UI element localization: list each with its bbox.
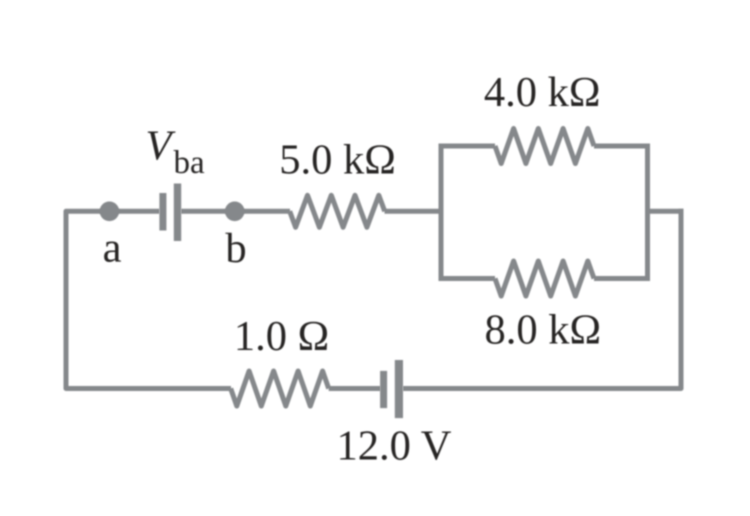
- wire: parallel box left vertical: [439, 144, 444, 282]
- wire: 8.0k resistor to box bottom-right corner: [594, 276, 650, 281]
- wire: outer right vertical down and bottom to 12.0V battery positive plate: [403, 209, 681, 389]
- wire: parallel box right vertical: [645, 144, 650, 282]
- svg-text:8.0 kΩ: 8.0 kΩ: [485, 307, 602, 354]
- wire: 4.0k resistor to box top-right corner: [594, 144, 650, 149]
- wire: box top-left to 4.0k resistor: [441, 144, 495, 149]
- svg-text:a: a: [103, 225, 122, 272]
- svg-text:5.0 kΩ: 5.0 kΩ: [279, 137, 396, 184]
- resistor R1 5.0 kOhm zigzag: [290, 195, 385, 227]
- label V_ba for battery V1: [146, 122, 206, 181]
- node b junction dot: [225, 202, 245, 222]
- battery V2 (12.0 V) positive plate (long thin): [395, 360, 403, 418]
- svg-text:12.0 V: 12.0 V: [337, 423, 452, 470]
- wire: 1.0 ohm resistor to 12.0V battery negative plate: [329, 386, 381, 391]
- resistor R4 1.0 Ohm zigzag: [231, 371, 329, 406]
- svg-text:b: b: [225, 225, 246, 272]
- battery V1 (V_ba) positive plate (long thin): [174, 184, 181, 242]
- wire: stub from box right vertical to outer right vertical: [648, 209, 684, 214]
- battery V2 (12.0 V) negative plate (short thick): [380, 371, 387, 408]
- wire: battery V_ba positive plate through node b to 5.0k resistor: [181, 209, 290, 214]
- resistor R3 8.0 kOhm zigzag: [495, 261, 594, 296]
- resistor R2 4.0 kOhm zigzag: [495, 129, 594, 164]
- battery V1 (V_ba) negative plate (short thick): [159, 193, 166, 231]
- svg-text:4.0 kΩ: 4.0 kΩ: [484, 69, 601, 116]
- svg-text:ba: ba: [174, 145, 206, 181]
- node a junction dot: [100, 202, 120, 222]
- wire: left loop from battery V_ba negative plate around left side and bottom to 1.0 ohm resistor: [66, 211, 231, 388]
- svg-text:1.0 Ω: 1.0 Ω: [234, 313, 329, 360]
- wire: box bottom-left to 8.0k resistor: [441, 276, 495, 281]
- wire: 5.0k resistor to parallel box left vertical: [385, 209, 442, 214]
